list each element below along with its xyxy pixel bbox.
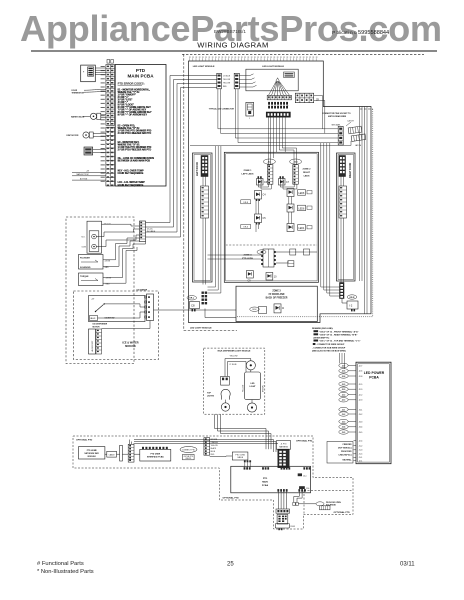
svg-text:03/11: 03/11 [400, 562, 415, 568]
svg-text:J2-6: J2-6 [342, 371, 346, 373]
LED power pin stubs and labels [354, 366, 357, 461]
zone4 wires [276, 252, 317, 263]
PTD error code paragraphs [118, 88, 155, 187]
svg-text:"CN A" OF 12 - FRONT TERMINAL: "CN A" OF 12 - FRONT TERMINAL "A"A" [319, 330, 359, 333]
pin strip separators [106, 69, 115, 182]
harness connector row 1 [267, 95, 291, 100]
pin strip row labels [101, 66, 105, 182]
svg-text:NEUTRAL: NEUTRAL [342, 458, 352, 461]
svg-text:(SEE ALSO NOTES ON BUS WIRE): (SEE ALSO NOTES ON BUS WIRE) [312, 350, 346, 353]
svg-text:FROM PWR: FROM PWR [341, 451, 352, 453]
svg-text:(WHEN EMPTY):: (WHEN EMPTY): [314, 338, 330, 340]
svg-text:J2-2: J2-2 [342, 394, 346, 396]
led C7 [279, 176, 290, 185]
svg-text:OPTIONAL PTD: OPTIONAL PTD [296, 440, 313, 443]
wire zone3 to left door connector [205, 309, 236, 318]
PTD UI top pins [142, 447, 168, 450]
zone3 tag oval [250, 307, 260, 311]
svg-text:RJ45: RJ45 [291, 526, 295, 528]
wires from UI connector to strip [95, 68, 106, 75]
svg-text:LED LIGHT MODULE: LED LIGHT MODULE [190, 328, 212, 330]
switch contact symbols [92, 234, 97, 239]
svg-text:DR-R: DR-R [350, 297, 355, 299]
svg-text:2 FOR PTD FREEZER AIR PTD: 2 FOR PTD FREEZER AIR PTD [118, 132, 152, 135]
LED module solid boundary [189, 61, 372, 323]
auger motor symbol [83, 132, 89, 138]
wire ice module to zone3 [154, 309, 237, 311]
svg-text:LINE (TAP AC): LINE (TAP AC) [339, 453, 352, 456]
svg-text:J2-5: J2-5 [342, 384, 346, 386]
led C10 [266, 273, 277, 281]
svg-text:LED4: LED4 [299, 228, 305, 230]
svg-text:J2-8: J2-8 [342, 376, 346, 378]
svg-text:J2: J2 [316, 98, 319, 101]
svg-text:TORQUE: TORQUE [80, 276, 89, 278]
svg-text:DR-L: DR-L [190, 298, 195, 300]
svg-text:OPTIONAL PTD: OPTIONAL PTD [76, 439, 93, 442]
harness connector row 3 dark block [266, 112, 290, 117]
svg-text:TOP: TOP [207, 393, 212, 395]
svg-text:# Functional Parts: # Functional Parts [37, 561, 84, 567]
svg-text:J2-8: J2-8 [359, 376, 363, 378]
LED module outer dashed boundary bottom right [237, 316, 373, 318]
led C9 [247, 271, 254, 283]
svg-text:LEFT DOOR: LEFT DOOR [196, 162, 199, 176]
milk module led lamp box [245, 372, 261, 400]
wire number tick row [190, 58, 317, 61]
svg-text:COUNT SW: COUNT SW [105, 317, 115, 319]
svg-text:YELLOW: YELLOW [211, 445, 218, 447]
zone1 strip to led wires [258, 176, 297, 189]
svg-text:J4-1: J4-1 [303, 476, 307, 478]
bus remark note block [311, 326, 399, 354]
optional PTD dashed boundary [73, 436, 353, 529]
svg-text:YELLOW: YELLOW [230, 355, 238, 357]
svg-text:CE - LOSS OF COMMUNICATION: CE - LOSS OF COMMUNICATION [118, 157, 155, 160]
connector C12 box [347, 301, 358, 309]
svg-text:MODULE: MODULE [88, 456, 97, 458]
J4 strip [276, 509, 290, 513]
led unit left B [255, 214, 267, 225]
svg-text:WATER VALVE: WATER VALVE [71, 115, 85, 118]
svg-text:J3-4: J3-4 [342, 426, 346, 429]
svg-text:TYPICAL LED CONNECTOR: TYPICAL LED CONNECTOR [209, 107, 235, 110]
DR-R tag [347, 295, 357, 299]
ice and water module dashed box [74, 291, 159, 360]
wire color labels between pair [223, 75, 231, 88]
svg-text:J3-3: J3-3 [359, 421, 363, 423]
bottom wires [72, 172, 106, 180]
latch icon bottom [320, 506, 331, 510]
svg-text:J2-7: J2-7 [359, 365, 363, 367]
J1 connector stack [278, 449, 289, 468]
wires module gap verticals to dispenser strips [146, 76, 217, 238]
PTD aux box pins to main [245, 462, 250, 467]
lamp icon in assembly box [284, 72, 295, 78]
wires plunger to strip [103, 238, 140, 266]
svg-text:LED6: LED6 [299, 208, 305, 210]
plunger solenoid box [79, 255, 104, 270]
zone wire bundle from harness [269, 117, 297, 164]
strip2 wire color labels [211, 439, 219, 456]
svg-text:C4: C4 [263, 194, 267, 197]
svg-text:J1-3: J1-3 [359, 450, 363, 452]
left channel internal wires [203, 177, 206, 285]
zone4 small connector A [290, 249, 296, 255]
svg-text:CABLE: CABLE [109, 453, 116, 456]
connector J1 pin strip of PTD board [106, 65, 115, 187]
svg-text:9 FOR "-" OF ARROW KEY: 9 FOR "-" OF ARROW KEY [118, 113, 148, 116]
wire strip2 to PTD connector box [210, 455, 233, 458]
zone2 connector strip [293, 165, 299, 185]
svg-text:MILK DISPENSER LIGHT MODULE: MILK DISPENSER LIGHT MODULE [218, 350, 251, 352]
LED power PCBA box [356, 362, 391, 464]
zone4 connector box [263, 249, 274, 267]
zone1 connector strip [267, 165, 273, 185]
svg-text:ZONE 3: ZONE 3 [272, 291, 281, 293]
svg-text:VALVE: VALVE [90, 317, 96, 320]
svg-text:LT. BLUE: LT. BLUE [223, 75, 231, 77]
zone1 header tag oval [263, 159, 275, 164]
feeder wires to LED power board [340, 353, 345, 369]
svg-text:BETWEEN UI AND MAIN PCB: BETWEEN UI AND MAIN PCB [118, 160, 151, 163]
milk module wires top [225, 359, 251, 377]
left gap vertical wires [216, 146, 221, 280]
wires door thermistor [84, 89, 106, 92]
zone divider dashed [226, 244, 317, 246]
milk module lamp symbol [221, 389, 230, 396]
svg-text:BACK OF FREEZER: BACK OF FREEZER [266, 297, 288, 300]
svg-text:"CN C" OF 12 - TOP AND TERMINA: "CN C" OF 12 - TOP AND TERMINAL "C"C" [319, 340, 361, 343]
svg-text:ON THE PTD: ON THE PTD [183, 456, 193, 458]
svg-text:- CONNECTOR WIRE GROUP: - CONNECTOR WIRE GROUP [316, 344, 345, 346]
svg-text:FF DOOR AND: FF DOOR AND [269, 293, 285, 296]
svg-text:LEDS: LEDS [304, 176, 310, 178]
latch connector icon lower [351, 134, 366, 141]
right door bottom connector [340, 283, 345, 299]
pin number blobs [107, 66, 114, 186]
wires torque to strip [103, 242, 146, 284]
PTD main bottom pins group b [298, 489, 305, 492]
svg-text:J2-3: J2-3 [342, 400, 346, 402]
svg-text:ICE DISPENSER: ICE DISPENSER [93, 324, 108, 326]
svg-text:LED LIGHT MODULE: LED LIGHT MODULE [193, 66, 215, 68]
svg-text:BLACK: BLACK [211, 447, 217, 450]
svg-text:2 FOR PTD FREEZER AIR PTD: 2 FOR PTD FREEZER AIR PTD [118, 149, 152, 152]
svg-text:J3-4: J3-4 [294, 161, 299, 164]
right gap vertical wires [321, 143, 330, 281]
door-open pocket dashed lines [304, 490, 353, 492]
top left connector pair [217, 73, 222, 89]
svg-text:J2-7: J2-7 [342, 365, 346, 367]
inner zone frame [224, 152, 318, 282]
svg-text:BLUE: BLUE [211, 451, 216, 453]
svg-text:J2-3: J2-3 [359, 400, 363, 402]
small pin strip [128, 444, 134, 462]
svg-text:RED: RED [211, 454, 215, 456]
PTD home module box [79, 447, 105, 459]
svg-text:FREEZER: FREEZER [343, 444, 352, 446]
svg-text:MODULE: MODULE [125, 345, 136, 348]
svg-text:C8: C8 [191, 304, 195, 308]
svg-text:BROWN: BROWN [262, 385, 264, 392]
LED module outer dashed boundary bottom left [184, 330, 237, 332]
svg-text:1: 1 [249, 118, 250, 120]
LED module outer dashed step [360, 108, 373, 110]
svg-text:I2: I2 [282, 307, 285, 310]
svg-text:+5V IN: +5V IN [105, 261, 111, 263]
svg-text:PTD: PTD [136, 68, 146, 73]
svg-text:REMARK (BUS LINE):: REMARK (BUS LINE): [312, 327, 333, 330]
svg-text:LT. BLUE: LT. BLUE [230, 364, 238, 366]
harness connector row 2 pin pairs [268, 102, 288, 109]
PTD aux connector box [232, 452, 248, 460]
svg-text:J2-4: J2-4 [359, 440, 363, 442]
PTD main right edge pins [298, 473, 305, 489]
wires door switch [93, 149, 106, 152]
svg-text:10: 10 [274, 276, 277, 279]
zone4 feed wires from left door [208, 255, 262, 259]
typical led connector icon [246, 102, 254, 116]
wire strip2 [204, 438, 210, 456]
svg-text:J2-6: J2-6 [359, 371, 363, 373]
svg-text:J3-5: J3-5 [359, 432, 363, 434]
PTD main bottom pins group a [277, 489, 287, 492]
svg-text:J3-1: J3-1 [342, 409, 346, 411]
J4 pin block [277, 515, 288, 525]
DC-DC connector strip [140, 221, 146, 242]
svg-text:OPTIONAL PTD: OPTIONAL PTD [223, 497, 240, 500]
door open connector pair [293, 502, 295, 505]
title rule [31, 50, 437, 52]
wires ice box to strip [98, 302, 151, 329]
svg-text:ZONE 2: ZONE 2 [303, 169, 312, 171]
svg-text:LATCH: LATCH [348, 119, 355, 122]
led unit right C [287, 224, 312, 232]
svg-text:THERMISTOR: THERMISTOR [72, 92, 85, 94]
left door top connector [201, 156, 208, 177]
svg-text:OPTIONAL PTD: OPTIONAL PTD [334, 511, 351, 514]
svg-text:*: * [83, 71, 85, 75]
svg-text:PB DOOR OPEN: PB DOOR OPEN [326, 502, 341, 504]
wires into lamp assembly with arrows [239, 74, 256, 87]
wires auger motor [93, 134, 106, 137]
zone4 small connector B [304, 249, 310, 255]
svg-text:C7: C7 [286, 181, 290, 184]
water valve motor symbol [90, 113, 96, 119]
latch connector icon upper [348, 126, 362, 134]
svg-text:J1-2: J1-2 [359, 445, 363, 447]
svg-text:PCBA: PCBA [369, 375, 379, 379]
LED module outer dashed boundary right [372, 109, 374, 317]
right channel internal wires [341, 177, 344, 283]
far right gap vertical wires [360, 107, 368, 314]
svg-text:GND: GND [105, 267, 110, 269]
LED module outer dashed boundary left [183, 54, 185, 330]
svg-text:DR-6: DR-6 [243, 227, 247, 229]
svg-text:N.O.: N.O. [82, 237, 86, 239]
svg-text:J3-2: J3-2 [359, 414, 363, 416]
svg-text:PTD: PTD [263, 478, 268, 480]
right door top connector [339, 156, 346, 177]
svg-text:RED: RED [223, 86, 227, 88]
svg-text:25: 25 [227, 562, 234, 568]
svg-text:COM: COM [82, 247, 87, 249]
wire bundle upper [215, 414, 272, 449]
RJ45 jack box [275, 523, 289, 528]
svg-text:SOLENOID: SOLENOID [80, 267, 91, 269]
door switch block [84, 147, 93, 155]
svg-text:CABLE: CABLE [237, 456, 244, 459]
DR-L tag [187, 296, 197, 300]
zone3 led C11 [274, 304, 285, 313]
svg-text:J2-1: J2-1 [359, 460, 363, 462]
svg-text:ICE MAKER: ICE MAKER [137, 289, 148, 292]
svg-text:(TOP VIEW AC): (TOP VIEW AC) [338, 446, 352, 449]
led C6 [257, 176, 268, 185]
top lamp assembly box [246, 69, 298, 91]
J1 connector label box [276, 441, 290, 450]
switch symbol [96, 305, 104, 312]
dispenser assembly dashed enclosure [66, 217, 134, 364]
left door middle box [201, 186, 209, 218]
grid connector J2 [295, 93, 313, 103]
auger motor pin strip [96, 329, 102, 354]
svg-text:MAIN: MAIN [262, 481, 268, 484]
J4 wires down [278, 492, 286, 509]
power feed text block [327, 442, 353, 464]
svg-text:P blicati n o 5995588844: P blicati n o 5995588844 [332, 30, 389, 36]
svg-text:J3-4: J3-4 [359, 427, 363, 429]
svg-text:LIGHT: LIGHT [250, 386, 257, 388]
wires solenoid unit to strip [96, 224, 139, 246]
led unit right B [287, 204, 312, 212]
svg-text:J2-5: J2-5 [359, 384, 363, 386]
svg-text:"CN B" OF 12 - REAR TERMINAL ": "CN B" OF 12 - REAR TERMINAL "B"B" [319, 333, 357, 336]
milk module left connector [221, 376, 230, 385]
ice maker inner box [89, 296, 146, 322]
svg-text:DISP MOTOR: DISP MOTOR [67, 135, 80, 137]
gap wires into door connectors [208, 280, 340, 296]
svg-text:J1-1: J1-1 [359, 457, 363, 459]
connector above strip [107, 60, 110, 64]
milk module right bottom circle [247, 403, 256, 412]
svg-text:J2-9: J2-9 [359, 389, 363, 391]
led chain wires left column [256, 201, 259, 232]
wire fan converging to lamp point [269, 82, 290, 96]
svg-text:PTD HOME: PTD HOME [87, 450, 98, 452]
zone3 connector box [259, 307, 267, 314]
svg-text:AUGER MOT: AUGER MOT [91, 340, 94, 352]
svg-text:FOUR KEY SEQUENCE: FOUR KEY SEQUENCE [118, 173, 144, 175]
connect tag oval [180, 447, 197, 453]
svg-text:PTD CONN: PTD CONN [235, 454, 245, 456]
auger motor tall box [89, 329, 96, 354]
svg-text:J3-5: J3-5 [342, 432, 346, 434]
milk module right top circle [246, 361, 255, 370]
svg-text:J2-9: J2-9 [342, 389, 346, 391]
svg-text:MAIN PCBA: MAIN PCBA [127, 74, 154, 79]
svg-text:RIGHT: RIGHT [303, 172, 310, 174]
svg-text:LED: LED [251, 383, 256, 385]
svg-text:CONNECT PTD: CONNECT PTD [182, 449, 196, 451]
left door bottom connector pins [202, 292, 208, 305]
solenoid valve box [90, 316, 98, 321]
bus wires from door connectors to rear strip [190, 89, 351, 146]
wire bundle lower [130, 440, 279, 453]
PTD main bottom box [231, 466, 311, 493]
svg-text:I·2: I·2 [349, 304, 353, 308]
svg-text:LED8: LED8 [299, 193, 305, 195]
svg-text:PTD ERROR CODES:: PTD ERROR CODES: [118, 81, 145, 85]
svg-text:J3-2: J3-2 [342, 414, 346, 416]
PTD main top pin groups [244, 467, 311, 469]
milk module internal wires [226, 370, 253, 403]
torque solenoid box [79, 273, 104, 286]
dispenser UI connector box [81, 65, 96, 82]
svg-text:LCF - LCL WATER TEMP: LCF - LCL WATER TEMP [118, 181, 146, 184]
solenoid switch unit box [87, 221, 102, 253]
svg-text:GND: GND [106, 283, 111, 285]
zone4 connector C [288, 261, 294, 267]
wires water valve [83, 115, 106, 118]
LED module outer dashed boundary top [182, 53, 424, 55]
svg-text:DR-8: DR-8 [243, 202, 247, 204]
zone2 header tag oval [290, 159, 302, 164]
ice maker connector strip [147, 294, 154, 321]
svg-text:DR-F: DR-F [252, 309, 257, 311]
svg-text:PCBA: PCBA [262, 484, 269, 487]
svg-text:J2-2: J2-2 [359, 394, 363, 396]
PTD user interface box [140, 449, 171, 461]
led unit right A [287, 189, 312, 197]
svg-text:MATCH REAR WIRE: MATCH REAR WIRE [328, 115, 347, 118]
svg-text:ZONE 1: ZONE 1 [244, 170, 253, 172]
svg-text:LIGHTS: LIGHTS [207, 396, 215, 398]
svg-text:YELLOW: YELLOW [223, 82, 230, 84]
zone4 tag oval [257, 250, 266, 254]
right door middle box [339, 186, 347, 218]
milk dispenser light module dashed box [204, 348, 265, 414]
left door channel box [193, 153, 213, 282]
svg-text:J1 PTD: J1 PTD [281, 443, 288, 445]
press fit symbol [316, 502, 324, 506]
lamp point glyph [276, 78, 280, 82]
LED power wire tag ovals [339, 363, 348, 434]
svg-text:C5: C5 [263, 217, 267, 220]
led chain wires right column [289, 197, 292, 224]
led unit left B tag [241, 225, 251, 229]
svg-text:LEFT LEDS: LEFT LEDS [242, 174, 254, 176]
svg-text:PTD USER: PTD USER [151, 453, 161, 455]
svg-text:RIGHT DOOR: RIGHT DOOR [349, 162, 352, 178]
vertical bar connector [120, 445, 123, 461]
svg-text:YELLOW: YELLOW [242, 385, 244, 392]
svg-text:MOTOR: MOTOR [93, 327, 101, 329]
led unit left A [255, 191, 267, 202]
svg-text:USB PS: USB PS [185, 458, 191, 460]
connect tag box [183, 454, 195, 459]
svg-text:- CONNECTOR SUB WIRE GROUP: - CONNECTOR SUB WIRE GROUP [312, 347, 346, 349]
svg-text:* Non-Illustrated Parts: * Non-Illustrated Parts [37, 569, 94, 575]
wire number tick labels [189, 57, 317, 58]
svg-text:+5V: +5V [91, 299, 95, 301]
svg-text:EW28BS71IS/1: EW28BS71IS/1 [214, 29, 246, 34]
connector C8 box [190, 302, 200, 309]
zone3 box [236, 286, 317, 321]
svg-text:IN CABLE: IN CABLE [147, 230, 156, 233]
svg-text:a: a [287, 105, 288, 107]
